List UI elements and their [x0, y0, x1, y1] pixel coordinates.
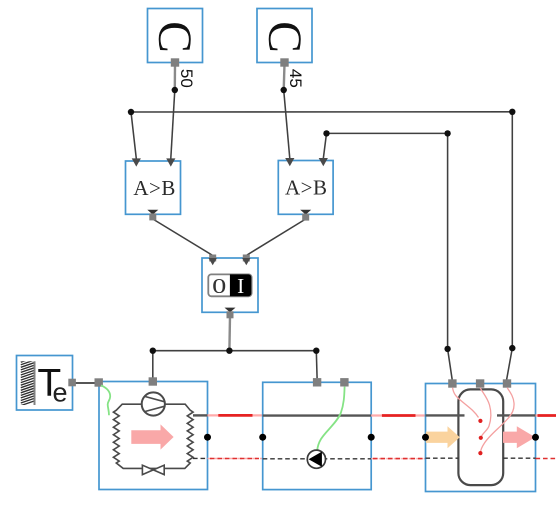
node tank left fluid port [422, 434, 429, 441]
compressor [142, 392, 165, 415]
svg-text:A>B: A>B [285, 176, 328, 200]
tank supply pipe left stub [426, 414, 465, 416]
return pipe tank to right edge dashed [536, 458, 556, 460]
tank supply pipe right stub [497, 414, 536, 416]
node pump left fluid port [259, 434, 266, 441]
heat pump Te input connector [95, 378, 103, 386]
comparator U1 A>B [126, 158, 181, 220]
svg-text:e: e [52, 378, 67, 408]
temperature sensor Te [17, 356, 76, 411]
node above tank T1 [444, 346, 450, 352]
wire bus to heatPump on/off input [152, 351, 154, 378]
tank return pipe right stub dashed [503, 457, 535, 459]
wire control bus horizontal [153, 350, 316, 352]
svg-text:45: 45 [286, 69, 305, 88]
tank sensor connector T1 [448, 379, 456, 387]
green signal squiggle in heat pump [101, 385, 110, 415]
node on const50 wire [172, 87, 178, 93]
pink heat flow arrow [131, 424, 173, 449]
node top-left corner of sensor wire A [128, 109, 134, 115]
storage tank block [426, 379, 536, 491]
return pipe heat pump to pump dashed [208, 458, 263, 460]
node tank right fluid port [532, 434, 539, 441]
wire tank sensor T3 to comparator1 input A [131, 112, 512, 380]
wire tank sensor T1 to comparator2 input B [323, 133, 452, 379]
svg-text:I: I [237, 274, 244, 298]
wire Te.y to heatPump input [72, 382, 99, 384]
pump return pipe dashed [263, 458, 372, 460]
wire const45.y to comparator2 input A [283, 64, 286, 90]
node pump right fluid port [368, 434, 375, 441]
pump on/off connector [313, 378, 321, 386]
tank sensor point 1 [478, 419, 482, 423]
pump impeller circle [307, 450, 325, 468]
return pipe stub dashed [193, 457, 208, 459]
node bus right end [313, 348, 319, 354]
node switch output junction [226, 348, 232, 354]
svg-text:C: C [148, 21, 200, 53]
tank sensor connector T2 [476, 379, 484, 387]
constant block const50 [148, 9, 203, 67]
wire switch.y to control bus [228, 316, 231, 351]
node bus left end [150, 348, 156, 354]
tank sensor curve 3 [481, 388, 515, 453]
wire comparator1.y to switch input 1 [153, 219, 212, 255]
node top-right corner of sensor wire A [509, 109, 515, 115]
tank vessel [458, 389, 503, 485]
pink outflow arrow [503, 426, 535, 448]
node right corner of sensor wire B [444, 130, 450, 136]
wire bus to pump on/off input [315, 351, 318, 379]
node above tank T3 [509, 345, 515, 351]
tank return pipe left stub dashed [426, 457, 459, 459]
expansion valve [142, 465, 164, 474]
svg-text:A>B: A>B [133, 176, 176, 200]
supply pipe heat pump to pump [208, 414, 263, 416]
node heat pump fluid port [204, 434, 211, 441]
supply pipe tank to right edge [536, 414, 556, 416]
node on const45 wire [281, 87, 287, 93]
svg-text:C: C [258, 21, 310, 53]
supply pipe pump to tank [371, 414, 425, 416]
tank sensor curve 2 [480, 388, 491, 437]
tank sensor point 2 [479, 436, 483, 440]
heat pump block [95, 377, 208, 489]
constant block const45 [257, 9, 312, 67]
pump block [263, 378, 372, 489]
supply pipe stub [193, 414, 208, 416]
return pipe pump to tank dashed [371, 458, 425, 460]
green signal squiggle in pump [317, 387, 344, 451]
wire const50.y to comparator1 input B [174, 64, 177, 90]
heat pump on/off connector [149, 377, 157, 385]
wire comparator2.y to switch input 2 [247, 219, 306, 255]
tank sensor curve 1 [453, 388, 479, 418]
svg-text:0: 0 [212, 275, 226, 298]
refrigerant loop with evaporator and condenser coils [113, 404, 193, 468]
tank sensor point 3 [478, 451, 482, 455]
svg-text:50: 50 [177, 69, 196, 88]
orange inflow arrow [426, 426, 460, 448]
node left corner of sensor wire B [323, 130, 329, 136]
comparator U2 A>B [278, 158, 333, 221]
pump speed connector [340, 378, 348, 386]
tank sensor connector T3 [503, 379, 511, 387]
on/off switch block [202, 255, 258, 319]
pump supply pipe [263, 414, 372, 416]
